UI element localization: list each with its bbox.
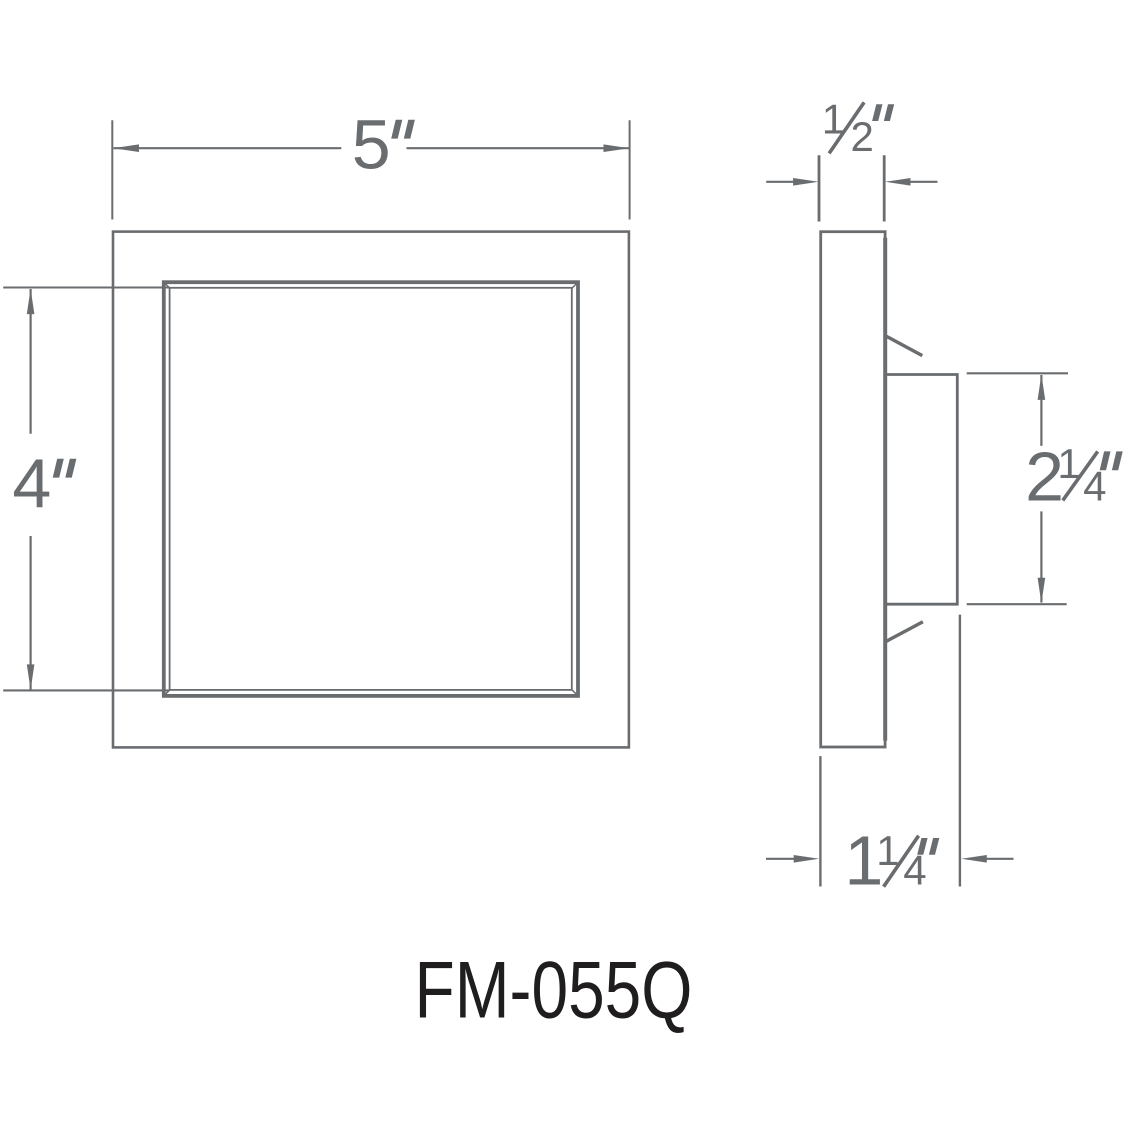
half-inch arrowhead left [793,178,819,186]
5in dimension arrowhead right [604,144,630,152]
4in dimension arrowhead bottom [27,664,35,690]
svg-text:5: 5 [352,106,391,184]
lens corner bevel bottom-left [165,689,171,695]
1.25in dimension arrow shaft left [766,858,797,860]
5in dimension extension line left [111,120,113,219]
mounting spring clip bottom [887,622,923,642]
half-inch arrowhead right [885,178,911,186]
mounting spring clip top [886,336,922,356]
4in dimension arrowhead top [27,289,35,315]
5in dimension line right segment [407,147,630,149]
2.25in dimension extension line bottom [967,603,1067,605]
1.25in label double prime [917,838,939,855]
2.25in label fraction slash [1063,451,1098,500]
lens corner bevel bottom-right [571,689,577,695]
5in dimension line left segment [114,147,342,149]
lens corner bevel top-left [165,283,171,289]
2.25in arrowhead top [1038,374,1046,400]
2.25in dimension extension line top [967,372,1068,374]
1.25in label fraction slash [884,836,919,887]
svg-text:4: 4 [12,445,51,523]
half-inch label fraction slash [829,102,864,153]
2.25in dimension line upper segment [1040,375,1042,446]
half-inch dimension tick left [818,155,821,221]
1.25in dimension extension line right [959,615,961,887]
2.25in label double prime [1100,451,1123,470]
1.25in arrowhead left [794,855,820,863]
5in label double prime [391,120,415,139]
2.25in arrowhead bottom [1038,578,1046,604]
side view plate back edge thick line [883,238,887,741]
half-inch dimension arrow shaft right [909,181,938,183]
4in label double prime [53,459,77,478]
2.25in dimension line lower segment [1040,511,1042,602]
5in dimension extension line right [629,120,631,219]
half-inch dimension arrow shaft left [766,181,796,183]
lens corner bevel top-right [571,283,577,289]
4in dimension line lower segment [30,536,32,690]
svg-text:2: 2 [851,113,874,160]
side view mounting plate [821,232,885,747]
4in dimension extension line top [3,286,169,288]
half-inch label double prime [872,104,894,121]
side view junction box outline [886,375,957,605]
1.25in dimension extension line left [819,756,821,886]
front view inner lens square outer edge [164,282,578,696]
5in dimension arrowhead left [113,144,139,152]
front view inner lens square inner edge [170,288,572,690]
1.25in arrowhead right [961,855,987,863]
half-inch dimension tick right [883,155,886,221]
4in dimension line upper segment [30,289,32,434]
front view outer square (5in trim plate) [113,232,629,748]
svg-text:FM-055Q: FM-055Q [415,946,693,1036]
4in dimension extension line bottom [3,689,169,691]
1.25in dimension arrow shaft right [984,858,1014,860]
